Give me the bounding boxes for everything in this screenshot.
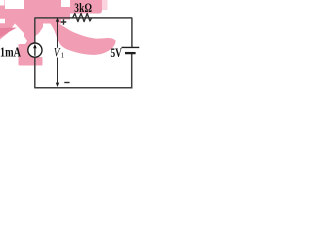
watermark white corner [0,0,5,6]
watermark lower-left strokes [0,23,35,46]
battery short plate [125,52,136,54]
svg-text:5V: 5V [111,47,122,61]
svg-text:V: V [54,46,61,60]
wire top [35,17,132,19]
label 1mA [0,44,21,60]
watermark patch right of wire [36,19,44,36]
watermark 3k highlight [70,0,102,14]
current source I1 circle [28,43,42,57]
watermark connector under notch [61,7,70,20]
background [0,0,140,92]
voltage arrow V1 upper segment [57,21,59,48]
minus sign [64,82,69,84]
svg-text:1: 1 [61,51,65,59]
label 3kOhm [74,2,92,16]
watermark white wedge mid [17,27,27,45]
watermark top-left pink block [0,0,61,24]
voltage arrow V1 lower segment [57,58,59,84]
svg-text:3kΩ: 3kΩ [74,2,92,16]
plus sign [61,19,67,25]
watermark band behind circle [19,44,39,62]
watermark white wedge left [9,24,16,33]
watermark band foot [19,57,43,66]
voltage arrow up head [56,17,59,21]
wire left upper [34,18,36,44]
battery E 5V long plate [122,46,140,48]
wire right lower [131,53,133,88]
watermark white sliver left [0,19,5,24]
svg-text:1mA: 1mA [0,44,21,60]
wire right upper [131,18,133,48]
watermark faint wisp [102,0,108,10]
label 5V [111,47,122,61]
watermark white gap top [5,0,24,9]
watermark white notch [61,0,70,7]
watermark dark wedge [0,28,17,38]
wire bottom [34,87,132,89]
label V1 [54,46,61,60]
watermark swash band [46,19,116,55]
current source arrow [34,47,36,56]
resistor R 3k zigzag [72,13,91,21]
wire left lower [34,57,36,88]
voltage arrow down head [56,83,59,87]
